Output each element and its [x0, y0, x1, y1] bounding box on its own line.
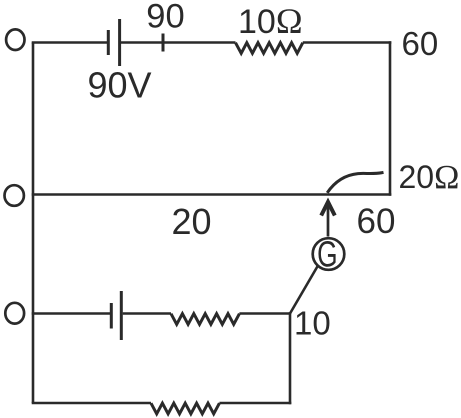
- wire: third row middle segment: [123, 312, 171, 315]
- wire: top row middle segment: [121, 41, 236, 44]
- battery (bottom): long plate: [120, 291, 123, 340]
- arrow pointing to middle wire: [327, 204, 330, 237]
- wire: bottom row left segment: [32, 402, 151, 405]
- galvanometer G circle: [313, 238, 345, 270]
- tick mark at node 90: [162, 34, 165, 52]
- jockey contact curve: [327, 172, 383, 192]
- svg-text:10Ω: 10Ω: [238, 1, 303, 41]
- svg-text:20: 20: [172, 201, 212, 242]
- wire: third row right segment: [239, 312, 290, 315]
- wire: third row left segment: [32, 312, 110, 315]
- svg-text:60: 60: [357, 202, 396, 241]
- node O (middle-left): [5, 185, 24, 206]
- resistor 10ohm zigzag: [236, 43, 303, 54]
- svg-text:90V: 90V: [88, 65, 152, 106]
- battery 90V: long plate: [118, 19, 121, 66]
- svg-text:60: 60: [402, 25, 439, 62]
- wire: bottom row right segment: [219, 402, 291, 405]
- wire: top row right segment: [303, 41, 392, 44]
- wire: left vertical bus: [32, 43, 35, 404]
- battery (bottom): short plate: [110, 303, 113, 329]
- wire: right vertical (upper): [389, 41, 392, 196]
- svg-text:G: G: [317, 233, 337, 274]
- wire: top row left segment: [32, 41, 107, 44]
- wire: middle row (potentiometer wire): [32, 193, 392, 196]
- node O (bottom-left): [5, 303, 24, 324]
- svg-text:90: 90: [146, 0, 184, 36]
- wire: right vertical (lower): [289, 312, 292, 404]
- wire: diagonal from G to node 10: [290, 266, 318, 314]
- svg-text:10: 10: [294, 305, 331, 342]
- battery 90V: short plate: [107, 30, 110, 55]
- resistor (third row) zigzag: [171, 314, 239, 325]
- resistor (bottom) zigzag: [151, 403, 219, 414]
- node O (top-left): [6, 29, 24, 50]
- svg-text:20Ω: 20Ω: [399, 159, 460, 196]
